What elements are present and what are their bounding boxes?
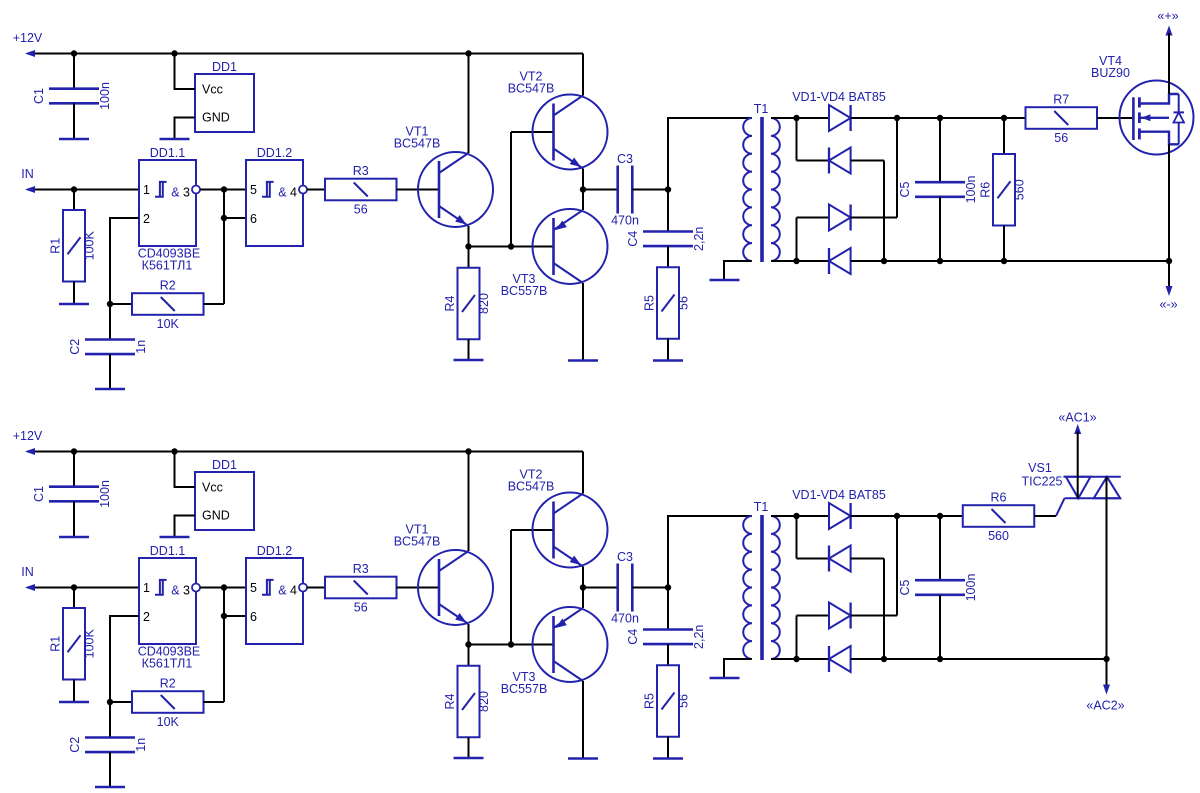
transistor VT2a [533, 95, 608, 170]
arrow IN left [25, 584, 35, 591]
capacitor C1a [49, 87, 99, 90]
wire C1 bottom [73, 103, 75, 139]
diode VD1b [829, 503, 851, 529]
svg-text:BC547B: BC547B [508, 480, 555, 494]
resistor R7 [1026, 107, 1098, 129]
svg-text:R4: R4 [443, 295, 457, 311]
wire VT2 emitter down [582, 567, 584, 588]
resistor R5a [657, 267, 679, 339]
wire VT3 collector down [582, 681, 584, 759]
wire row2 left [797, 160, 830, 162]
junction DD1 Vcc/+12V [171, 448, 177, 454]
junction R2/C2 node [107, 699, 113, 705]
resistor R5b [657, 665, 679, 737]
svg-text:К561ТЛ1: К561ТЛ1 [142, 259, 193, 273]
ground R4 [454, 359, 484, 362]
svg-text:R3: R3 [353, 562, 369, 576]
wire row3 left [797, 217, 830, 219]
junction DD1.2 pin6 tee [221, 215, 227, 221]
wire DD1.2 pin6 [224, 217, 246, 219]
wire «-» down [1168, 261, 1170, 291]
wire R1 bottom [73, 282, 75, 305]
wire R4 bottom [468, 737, 470, 758]
svg-text:100K: 100K [83, 628, 97, 658]
wire bridge A down to row2 [796, 516, 798, 559]
svg-text:R3: R3 [353, 164, 369, 178]
junction DD1.1 out [221, 584, 227, 590]
junction R6 top [1001, 115, 1007, 121]
svg-text:T1: T1 [754, 102, 769, 116]
wire VT1 emitter down [468, 624, 470, 645]
svg-text:R1: R1 [49, 636, 63, 652]
junction C3/C4/T1 node [665, 186, 671, 192]
svg-text:56: 56 [354, 203, 368, 217]
wire R1 top [73, 190, 75, 211]
junction C3/C4/T1 node [665, 584, 671, 590]
output inversion bubble DD1.1 [192, 584, 200, 592]
ground C1 [59, 536, 89, 539]
wire secondary bottom to bridge [771, 260, 829, 262]
resistor R3b [325, 577, 397, 599]
svg-text:+12V: +12V [13, 31, 43, 45]
svg-text:«AC2»: «AC2» [1086, 699, 1124, 713]
resistor R6a [993, 154, 1015, 226]
capacitor C1b [49, 485, 99, 488]
svg-text:R4: R4 [443, 693, 457, 709]
ground C2 [95, 786, 125, 789]
diode VD3b [829, 603, 851, 629]
capacitor C4b [643, 628, 693, 631]
capacitor C5b [915, 579, 965, 582]
wire row2 left [797, 558, 830, 560]
junction VT2/VT3 emitters [580, 186, 586, 192]
wire C2 bottom [109, 354, 111, 389]
svg-text:К561ТЛ1: К561ТЛ1 [142, 657, 193, 671]
svg-text:VD1-VD4 BAT85: VD1-VD4 BAT85 [792, 488, 886, 502]
T1 core [760, 515, 764, 660]
svg-text:10K: 10K [157, 715, 180, 729]
junction VT1 emitter/R4 [465, 641, 471, 647]
svg-text:DD1.2: DD1.2 [257, 146, 292, 160]
resistor R4a [458, 268, 480, 340]
svg-text:100n: 100n [964, 176, 978, 204]
svg-text:1: 1 [143, 183, 150, 197]
diode VD3a [829, 205, 851, 231]
wire node to C4 [667, 190, 669, 232]
logic gate DD1.2 box [246, 160, 303, 246]
wire R6 top [1003, 118, 1005, 154]
schmitt hysteresis symbol [262, 580, 274, 595]
svg-text:TIC225: TIC225 [1022, 475, 1063, 489]
wire C1 top [73, 452, 75, 487]
svg-text:2,2n: 2,2n [692, 625, 706, 649]
capacitor C2b [85, 736, 135, 739]
wire C4 to R5 [667, 644, 669, 665]
svg-text:2: 2 [143, 212, 150, 226]
wire DD1.2 out to R3 [307, 189, 325, 191]
svg-text:C2: C2 [68, 339, 82, 355]
wire IN [27, 587, 139, 589]
transistor VT1b [418, 550, 493, 625]
output inversion bubble DD1.2 [299, 186, 307, 194]
wire R2 left [110, 701, 132, 703]
junction VT2 base drop [508, 641, 514, 647]
junction C1/+12V [71, 448, 77, 454]
junction bridge bottom mid [881, 258, 887, 264]
svg-text:6: 6 [250, 212, 257, 226]
wire IN [27, 189, 139, 191]
svg-text:820: 820 [477, 293, 491, 314]
resistor R1a [63, 210, 85, 282]
svg-text:GND: GND [202, 111, 230, 125]
diode VD4b [829, 646, 851, 672]
svg-text:6: 6 [250, 610, 257, 624]
svg-text:R2: R2 [160, 677, 176, 691]
resistor R2a [132, 293, 204, 315]
svg-text:&: & [278, 584, 287, 598]
wire +12V rail [27, 451, 583, 453]
capacitor C5a [915, 181, 965, 184]
wire VT1 emitter down [468, 226, 470, 247]
resistor R2b [132, 691, 204, 713]
svg-text:56: 56 [677, 694, 691, 708]
T1 primary winding [743, 118, 752, 261]
arrow «+» up [1166, 26, 1173, 36]
svg-text:100K: 100K [83, 230, 97, 260]
svg-text:R5: R5 [643, 295, 657, 311]
wire C2 top [109, 304, 111, 340]
junction «-» node [1166, 258, 1172, 264]
wire C5 bottom [939, 197, 941, 261]
wire C2 bottom [109, 752, 111, 787]
resistor R1b [63, 608, 85, 680]
svg-text:C4: C4 [626, 231, 640, 247]
wire DD1.1 out to DD1.2 [200, 189, 246, 191]
svg-text:BC557B: BC557B [501, 682, 548, 696]
svg-text:C1: C1 [32, 88, 46, 104]
IC power block DD1 box [195, 472, 254, 530]
wire VT1 collector up [468, 452, 470, 552]
wire DD1 GND [175, 118, 196, 140]
wire R2 right [204, 303, 225, 305]
svg-text:470n: 470n [611, 612, 639, 626]
wire VT2 base [511, 529, 554, 531]
svg-text:R6: R6 [979, 182, 993, 198]
svg-text:5: 5 [250, 581, 257, 595]
wire VT3 emitter up [582, 588, 584, 609]
wire DD1.2 pin6 [224, 615, 246, 617]
svg-text:DD1: DD1 [212, 60, 237, 74]
wire VT2 base vertical [510, 530, 512, 645]
arrow «AC1» up [1074, 424, 1081, 434]
wire DD1.1 pin2 [110, 218, 139, 304]
diode VD1a [829, 105, 851, 131]
wire T1 primary bottom to ground [724, 261, 752, 280]
wire DD1.1 out to DD1.2 [200, 587, 246, 589]
logic gate DD1.2 box [246, 558, 303, 644]
svg-text:BC547B: BC547B [394, 535, 441, 549]
wire AC2 down [1106, 659, 1108, 690]
diode VD2a [829, 148, 851, 174]
wire DD1.2 out to R3 [307, 587, 325, 589]
svg-text:Vcc: Vcc [202, 83, 223, 97]
svg-text:C4: C4 [626, 629, 640, 645]
svg-text:R2: R2 [160, 279, 176, 293]
junction bridge top right [894, 513, 900, 519]
wire C3 to node [632, 189, 668, 191]
svg-text:IN: IN [21, 167, 34, 181]
wire R5 bottom [667, 339, 669, 361]
svg-text:4: 4 [290, 584, 297, 598]
wire T1 primary bottom to ground [724, 659, 752, 678]
diode VD4a [829, 248, 851, 274]
wire R1 bottom [73, 680, 75, 703]
wire VT4 drain up [1168, 33, 1170, 94]
IC power block DD1 box [195, 74, 254, 132]
junction R2/C2 node [107, 301, 113, 307]
wire R4 bottom [468, 339, 470, 360]
T1 core [760, 117, 764, 262]
wire VT1 collector up [468, 54, 470, 154]
svg-text:BC547B: BC547B [508, 82, 555, 96]
ground C1 [59, 138, 89, 141]
wire emitters to C3 [583, 189, 618, 191]
wire row3 up to top [896, 516, 898, 616]
junction DD1.1 out [221, 186, 227, 192]
ground R4 [454, 757, 484, 760]
wire R2 left [110, 303, 132, 305]
junction bridge node D bottom [793, 656, 799, 662]
junction bridge node A top [793, 115, 799, 121]
svg-text:C5: C5 [898, 579, 912, 595]
junction bridge top right [894, 115, 900, 121]
svg-text:R6: R6 [991, 491, 1007, 505]
wire VT2 base [511, 131, 554, 133]
capacitor C2a [85, 338, 135, 341]
wire R5 bottom [667, 737, 669, 759]
junction IN/R1 [71, 584, 77, 590]
output inversion bubble DD1.1 [192, 186, 200, 194]
wire R7 to gate [1097, 117, 1133, 119]
transistor VT3a [533, 209, 608, 284]
svg-text:56: 56 [677, 296, 691, 310]
svg-text:56: 56 [354, 601, 368, 615]
junction DD1.2 pin6 tee [221, 613, 227, 619]
transistor VT1a [418, 152, 493, 227]
wire C1 bottom [73, 501, 75, 537]
svg-text:+12V: +12V [13, 429, 43, 443]
svg-text:560: 560 [988, 529, 1009, 543]
wire DD1 Vcc [175, 54, 196, 90]
wire C1 top [73, 54, 75, 89]
svg-text:560: 560 [1013, 179, 1027, 200]
wire VT3 emitter up [582, 190, 584, 211]
svg-text:1n: 1n [134, 738, 148, 752]
transistor VT2b [533, 493, 608, 568]
svg-text:470n: 470n [611, 214, 639, 228]
svg-text:GND: GND [202, 509, 230, 523]
svg-text:VS1: VS1 [1028, 461, 1052, 475]
wire VD1 cathode out [851, 515, 962, 517]
junction VT2/VT3 emitters [580, 584, 586, 590]
junction R6 bottom [1001, 258, 1007, 264]
junction C5 top [937, 513, 943, 519]
wire feedback vertical [223, 190, 225, 305]
wire secondary bottom to bridge [771, 658, 829, 660]
svg-text:«+»: «+» [1157, 9, 1178, 23]
wire VD1 cathode out [851, 117, 1026, 119]
wire R2 right [204, 701, 225, 703]
ground DD1 [160, 138, 190, 141]
wire R1 top [73, 588, 75, 609]
wire row2 down to bottom [883, 559, 885, 660]
triac VS1 TIC225 [1063, 476, 1120, 478]
svg-text:2: 2 [143, 610, 150, 624]
svg-text:3: 3 [183, 584, 190, 598]
svg-text:4: 4 [290, 186, 297, 200]
arrow +12V left [25, 448, 35, 455]
svg-text:&: & [171, 584, 180, 598]
wire R6 bottom [1003, 226, 1005, 262]
output inversion bubble DD1.2 [299, 584, 307, 592]
svg-text:100n: 100n [98, 480, 112, 508]
svg-text:IN: IN [21, 565, 34, 579]
svg-text:3: 3 [183, 186, 190, 200]
arrow +12V left [25, 50, 35, 57]
diode VD2b [829, 546, 851, 572]
svg-text:820: 820 [477, 691, 491, 712]
svg-text:1n: 1n [134, 340, 148, 354]
junction VT1 collector/+12V [465, 448, 471, 454]
wire row3 right [851, 217, 897, 219]
wire bridge bottom out [851, 260, 1169, 262]
wire bridge bottom out [851, 658, 1107, 660]
capacitor C4a [643, 230, 693, 233]
wire DD1 GND [175, 516, 196, 538]
ground R5 [653, 757, 683, 760]
resistor R4b [458, 666, 480, 738]
junction bridge bottom mid [881, 656, 887, 662]
junction C5 bottom [937, 258, 943, 264]
svg-text:100n: 100n [964, 574, 978, 602]
wire VT4 source down [1168, 144, 1170, 261]
wire C4 to R5 [667, 246, 669, 267]
wire VT3 collector down [582, 283, 584, 361]
T1 secondary winding [771, 516, 780, 659]
wire row3 left [797, 615, 830, 617]
wire DD1.1 pin2 [110, 616, 139, 702]
wire row3 right [851, 615, 897, 617]
wire emitters to C3 [583, 587, 618, 589]
svg-text:5: 5 [250, 183, 257, 197]
svg-text:VD1-VD4 BAT85: VD1-VD4 BAT85 [792, 90, 886, 104]
schmitt hysteresis symbol [262, 182, 274, 197]
wire C5 top [939, 516, 941, 580]
wire R6 to gate bend [1034, 515, 1056, 517]
wire node up to T1 [668, 516, 752, 588]
svg-text:DD1: DD1 [212, 458, 237, 472]
ground VT3 [568, 757, 598, 760]
ground T1 [710, 279, 740, 282]
wire C5 bottom [939, 595, 941, 659]
svg-text:BC547B: BC547B [394, 137, 441, 151]
wire C3 to node [632, 587, 668, 589]
wire row2 down to bottom [883, 161, 885, 262]
svg-text:DD1.1: DD1.1 [150, 544, 185, 558]
svg-text:BUZ90: BUZ90 [1091, 66, 1130, 80]
svg-text:C1: C1 [32, 486, 46, 502]
ground DD1 [160, 536, 190, 539]
svg-text:«AC1»: «AC1» [1058, 410, 1096, 424]
logic gate DD1.1 box [139, 558, 196, 644]
svg-text:R1: R1 [49, 238, 63, 254]
schmitt hysteresis symbol [155, 580, 167, 595]
junction VT2 base drop [508, 243, 514, 249]
junction bridge node A top [793, 513, 799, 519]
transistor VT3b [533, 607, 608, 682]
junction C5 top [937, 115, 943, 121]
schmitt hysteresis symbol [155, 182, 167, 197]
wire rail corner to VT2 collector [582, 54, 584, 96]
triac gate diagonal [1056, 498, 1065, 516]
svg-text:56: 56 [1054, 131, 1068, 145]
wire secondary top to bridge [771, 515, 829, 517]
wire C5 top [939, 118, 941, 182]
wire secondary top to bridge [771, 117, 829, 119]
wire R3 to VT1 base [397, 587, 440, 589]
ground VT3 [568, 359, 598, 362]
svg-text:C3: C3 [617, 550, 633, 564]
svg-text:DD1.1: DD1.1 [150, 146, 185, 160]
junction C1/+12V [71, 50, 77, 56]
wire bridge row3 left down to bottom [796, 616, 798, 660]
wire triac MT1 down [1106, 477, 1108, 659]
svg-text:Vcc: Vcc [202, 481, 223, 495]
wire bridge row3 left down to bottom [796, 218, 798, 262]
wire DD1 Vcc [175, 452, 196, 488]
junction VT1 collector/+12V [465, 50, 471, 56]
svg-text:C2: C2 [68, 737, 82, 753]
wire bridge A down to row2 [796, 118, 798, 161]
ground R5 [653, 359, 683, 362]
transistor VT4 (MOSFET BUZ90) [1120, 81, 1194, 155]
wire AC1 down to triac [1077, 432, 1079, 499]
wire emitter row to VT3 base [469, 644, 554, 646]
wire emitter row to VT3 base [469, 246, 554, 248]
VT4 body diode [1178, 94, 1180, 112]
svg-text:T1: T1 [754, 500, 769, 514]
svg-text:1: 1 [143, 581, 150, 595]
svg-text:&: & [278, 186, 287, 200]
wire C2 top [109, 702, 111, 738]
ground T1 [710, 677, 740, 680]
capacitor C3b [616, 564, 619, 612]
junction bridge node D bottom [793, 258, 799, 264]
wire rail corner to VT2 collector [582, 452, 584, 494]
wire row2 right [851, 160, 884, 162]
svg-text:C3: C3 [617, 152, 633, 166]
T1 secondary winding [771, 118, 780, 261]
arrow «-» down [1166, 286, 1173, 296]
ground R1 [59, 701, 89, 704]
resistor R6b [963, 505, 1035, 527]
ground C2 [95, 388, 125, 391]
svg-text:BC557B: BC557B [501, 284, 548, 298]
svg-text:C5: C5 [898, 181, 912, 197]
svg-text:2,2n: 2,2n [692, 227, 706, 251]
ground R1 [59, 303, 89, 306]
wire R4 top [468, 247, 470, 269]
